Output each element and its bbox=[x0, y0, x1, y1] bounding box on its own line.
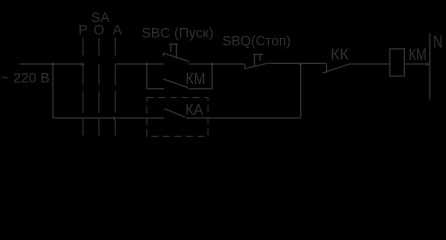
svg-text:О: О bbox=[94, 22, 105, 38]
svg-text:А: А bbox=[113, 22, 123, 38]
svg-text:КК: КК bbox=[331, 46, 350, 63]
svg-text:КА: КА bbox=[185, 101, 204, 119]
svg-text:N: N bbox=[433, 33, 443, 52]
svg-text:КМ: КМ bbox=[409, 45, 427, 64]
svg-text:SBQ(Стоп): SBQ(Стоп) bbox=[222, 33, 290, 48]
svg-text:КМ: КМ bbox=[186, 70, 206, 88]
svg-text:Р: Р bbox=[78, 22, 87, 38]
svg-text:~ 220 В: ~ 220 В bbox=[1, 70, 50, 86]
svg-text:SBC (Пуск): SBC (Пуск) bbox=[142, 25, 214, 41]
